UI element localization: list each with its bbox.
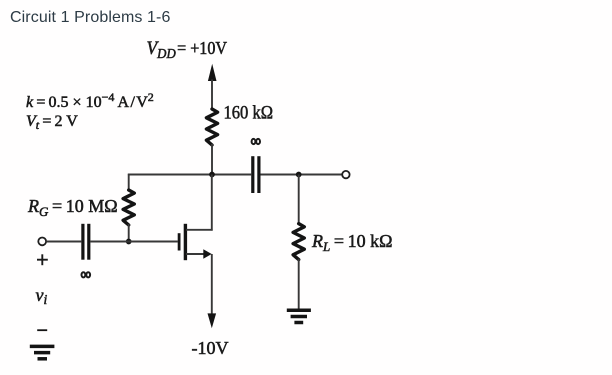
- label infinity (input cap): [82, 272, 91, 277]
- wire RL to ground: [298, 259, 300, 309]
- wire drain vertical to node: [211, 175, 213, 231]
- svg-text:Vt = 2 V: Vt = 2 V: [26, 113, 78, 132]
- wire source down to -10V arrow: [211, 254, 213, 315]
- resistor RG: [123, 190, 134, 225]
- wire source with arrow: [186, 253, 204, 255]
- svg-text:-10V: -10V: [192, 338, 229, 358]
- input terminal circle: [38, 238, 46, 246]
- ground (RL): [287, 310, 311, 322]
- wire cap C2 to output terminal: [260, 174, 342, 176]
- svg-text:RG = 10 MΩ: RG = 10 MΩ: [27, 196, 118, 219]
- wire output node down to RL: [298, 175, 300, 225]
- svg-text:k = 0.5 × 10−4 A / V2: k = 0.5 × 10−4 A / V2: [26, 90, 154, 111]
- ground (input source): [30, 346, 55, 358]
- capacitor C1 (input, infinite): [83, 224, 89, 260]
- output terminal circle: [342, 171, 349, 178]
- node drain junction: [209, 172, 215, 178]
- wire VDD arrow to R1: [211, 80, 213, 111]
- title: Circuit 1 Problems 1-6: [10, 12, 170, 24]
- label minus: [37, 329, 47, 331]
- capacitor C2 (output, infinite): [253, 156, 259, 193]
- wire R1 to drain node: [211, 144, 213, 175]
- power arrow VDD (up): [208, 64, 217, 81]
- wire top horizontal left segment: [128, 174, 251, 176]
- wire C1 to gate: [90, 241, 178, 243]
- transistor Q1 gate bar: [178, 233, 181, 250]
- wire top corner down to RG: [128, 174, 130, 191]
- svg-text:160 kΩ: 160 kΩ: [224, 104, 274, 124]
- wire RG to gate node: [128, 224, 130, 242]
- node gate junction: [126, 239, 132, 245]
- power arrow -10V (down): [208, 313, 217, 328]
- svg-text:vi: vi: [36, 285, 48, 307]
- label plus: [37, 254, 48, 265]
- svg-text:VDD = +10V: VDD = +10V: [147, 38, 228, 62]
- svg-text:RL = 10 kΩ: RL = 10 kΩ: [311, 231, 392, 254]
- wire drain horizontal: [186, 229, 213, 231]
- transistor Q1 channel bar: [184, 224, 187, 260]
- resistor 160k: [206, 109, 217, 145]
- label infinity (output cap): [252, 139, 260, 144]
- node output junction: [296, 172, 302, 178]
- transistor Q1 source arrowhead: [203, 249, 211, 259]
- resistor RL: [293, 224, 304, 260]
- wire input terminal to C1: [46, 241, 81, 243]
